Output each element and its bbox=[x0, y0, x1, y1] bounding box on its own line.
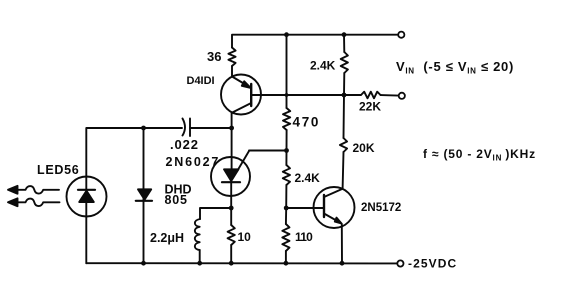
svg-text:2N6027: 2N6027 bbox=[166, 155, 221, 169]
svg-text:2.4K: 2.4K bbox=[295, 171, 321, 185]
light arrow 1 bbox=[17, 186, 59, 194]
svg-text:110: 110 bbox=[295, 230, 313, 244]
wire PUT gate bbox=[238, 151, 287, 171]
svg-text:36: 36 bbox=[207, 49, 221, 64]
resistor R 22K bbox=[361, 92, 381, 99]
wire 36-to-Q1 bbox=[231, 66, 233, 76]
wire Q1 base to 22K bbox=[251, 94, 361, 96]
wire LED top / coupling bbox=[86, 128, 182, 177]
resistor R 2.4K lower bbox=[285, 151, 287, 166]
wire 470 branch top bbox=[286, 35, 288, 108]
svg-text:2.2μH: 2.2μH bbox=[150, 231, 184, 245]
resistor R 470 bbox=[283, 108, 290, 130]
svg-text:470: 470 bbox=[293, 115, 321, 130]
transistor Q2 2N5172 bbox=[314, 187, 355, 228]
wire Q1 collector down bbox=[231, 113, 233, 129]
svg-text:805: 805 bbox=[165, 193, 188, 207]
terminal -25VDC bbox=[397, 260, 403, 266]
wire diode branch bbox=[143, 128, 145, 263]
svg-text:f ≈ (50 - 2VIN )KHz: f ≈ (50 - 2VIN )KHz bbox=[423, 147, 536, 163]
resistor R 2.4K upper bbox=[343, 35, 345, 52]
svg-text:LED56: LED56 bbox=[37, 163, 79, 177]
capacitor C .022 bbox=[183, 119, 186, 136]
wire cathode node to inductor bbox=[200, 208, 231, 219]
svg-text:22K: 22K bbox=[359, 99, 381, 113]
svg-text:2N5172: 2N5172 bbox=[361, 202, 401, 214]
wire top rail bbox=[232, 35, 398, 48]
LED LED56 bbox=[67, 177, 107, 217]
resistor R 10 bbox=[230, 208, 232, 225]
svg-text:2.4K: 2.4K bbox=[310, 58, 336, 72]
svg-text:.022: .022 bbox=[170, 137, 199, 152]
svg-text:10: 10 bbox=[238, 230, 252, 244]
terminal Vin 22K bbox=[399, 93, 405, 99]
transistor Q1 D41D1 bbox=[221, 75, 261, 115]
diode D1 DHD805 bbox=[138, 189, 151, 199]
resistor R 36 bbox=[228, 48, 235, 67]
svg-text:-25VDC: -25VDC bbox=[408, 257, 457, 271]
terminal Vin top bbox=[398, 32, 404, 38]
svg-text:D4IDI: D4IDI bbox=[187, 75, 215, 87]
resistor R 20K bbox=[343, 95, 346, 138]
light arrow 2 bbox=[17, 199, 60, 207]
resistor R 110 bbox=[285, 208, 287, 224]
PUT U1 2N6027 bbox=[211, 157, 250, 196]
wire bottom rail bbox=[86, 262, 397, 264]
wire cap to node bbox=[190, 127, 232, 129]
svg-text:20K: 20K bbox=[353, 141, 375, 155]
junction dots bbox=[141, 126, 146, 131]
inductor L1 2.2uH bbox=[195, 219, 200, 250]
